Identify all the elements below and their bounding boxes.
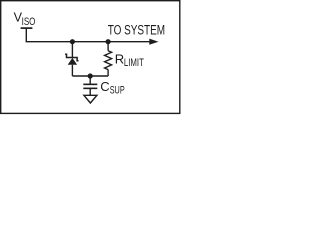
terminal VISO bbox=[21, 27, 33, 29]
wire bottom rail bbox=[72, 75, 108, 77]
wire resistor bottom stub bbox=[107, 70, 109, 76]
svg-text:R: R bbox=[115, 51, 124, 66]
wire VISO vertical bbox=[25, 28, 27, 42]
zener diode D1 anode triangle bbox=[68, 58, 77, 65]
capacitor CSUP top plate bbox=[83, 83, 97, 85]
node C (capacitor tap junction dot) bbox=[88, 73, 93, 78]
resistor RLIMIT zigzag bbox=[105, 51, 112, 70]
zener diode D1 cathode bar with bent ends bbox=[65, 54, 78, 61]
ground symbol bbox=[84, 95, 97, 103]
wire ground stub bbox=[89, 88, 91, 95]
wire main horizontal bbox=[26, 41, 151, 43]
svg-text:ISO: ISO bbox=[22, 16, 36, 28]
node A (zener tap junction dot) bbox=[70, 39, 75, 44]
node B (resistor top junction dot) bbox=[106, 39, 111, 44]
svg-text:SUP: SUP bbox=[110, 85, 125, 97]
svg-text:LIMIT: LIMIT bbox=[124, 57, 144, 69]
svg-text:TO SYSTEM: TO SYSTEM bbox=[108, 23, 165, 38]
arrowhead TO SYSTEM bbox=[149, 39, 158, 45]
svg-text:C: C bbox=[100, 79, 109, 94]
wire zener bottom bbox=[71, 65, 73, 76]
wire resistor top stub bbox=[107, 42, 109, 51]
wire capacitor top stub bbox=[89, 76, 91, 84]
border frame bbox=[1, 1, 180, 114]
wire zener top bbox=[71, 42, 73, 58]
capacitor CSUP bottom plate bbox=[83, 87, 97, 89]
